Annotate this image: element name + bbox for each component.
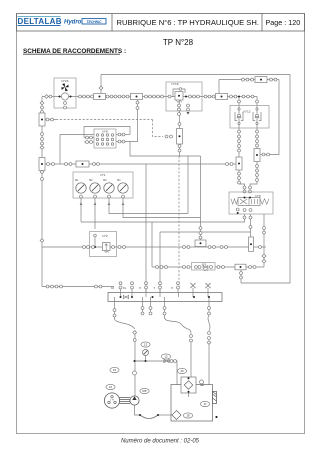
wire pilot dashed x152 elbow [153,120,164,137]
couplers N9 drain x264 [262,227,266,263]
throttle valve on x42 lower [39,158,45,171]
couplers x257 drop [256,135,259,147]
wire N12 left branch x239 [239,97,245,193]
wire N8 loop top [84,127,130,138]
wire pump outlet bottom [135,405,173,415]
item bubble 20 [177,368,186,373]
wire line y164 [45,163,237,165]
flow control FC3 [216,94,228,100]
wire line B y267 [152,266,264,268]
wire tank drop x209 [208,344,210,385]
couplers top line y79.6 [242,78,254,81]
manifold block N8 [94,129,116,148]
pilot valve x257 [254,149,260,162]
svg-text:MP: MP [142,389,146,393]
svg-text:N°1: N°1 [100,173,105,177]
wire riser x103 to outer loop [100,75,102,94]
wire gauge M2 drop [94,198,96,229]
wire N8 left stubs [84,138,94,143]
wire riser x219 [218,80,220,94]
couplers left vertical x42 [40,101,44,242]
shutoff valve 12 [164,359,177,362]
suction strainer diamond [172,411,181,420]
hydraulic pump [130,396,139,405]
header table [17,14,305,32]
svg-text:TP N°28: TP N°28 [163,38,194,47]
svg-text:13: 13 [144,343,148,347]
couplers hose ends [133,331,211,345]
inline throttle on line B [235,264,246,270]
couplers N5 drain [240,272,243,279]
port T [153,282,161,293]
svg-text:P: P [139,286,141,290]
port P1 [139,282,147,293]
directional valve N9 [229,192,273,214]
wire right drop x279 [261,80,280,155]
motor-pump coupling shaft [120,398,131,404]
wire tank drop x191 [190,342,192,377]
gauge line arrows [80,202,125,205]
Hydro Technic logo [64,19,106,26]
pilot valve x239 [236,157,242,170]
wire N9 B line y232 [160,214,251,247]
bar bottom stubs [113,302,210,318]
item bubble 12 [161,354,170,359]
wire FC2 drop to N8 [126,100,138,142]
couplers main line mid [106,95,129,98]
relief valve unit N18 [166,82,202,115]
wire hose bar x164 [164,315,191,334]
port X1 [123,282,134,293]
couplers x239 drop [238,135,241,152]
svg-text:N°12: N°12 [244,110,251,114]
svg-text:17: 17 [203,402,207,406]
couplers below N9 [236,208,252,228]
distribution bar manifold [108,293,222,302]
header title text [117,18,259,27]
pressure gauge 13 [143,350,149,356]
wire vertical x200 [200,156,202,240]
wire gauge M1 to line y222 [80,198,82,222]
wire return line 12 [135,361,178,385]
couplers top line right [270,78,277,81]
wire hose bar to pump [114,317,134,329]
couplers below pilot valve x257 [256,165,259,182]
item bubble 15 [110,367,119,372]
wire T return vertical x188 [187,156,189,214]
page number [266,18,301,27]
wire gauge13 stem [135,356,146,362]
inline valve above line A x200 [195,240,206,247]
oil tank [171,385,213,422]
gauge panel N1 [73,172,133,198]
svg-text:RUBRIQUE N°6 : TP HYDRAULIQUE: RUBRIQUE N°6 : TP HYDRAULIQUE SH. [117,18,259,27]
couplers below pilot valve x239 [238,172,241,184]
cooler unit N23 [54,78,76,109]
wire T port vertical x160 [159,232,161,293]
couplers x200 above valve [199,227,202,239]
DELTALAB logo [18,16,62,26]
coupler pump suction [133,371,137,375]
couplers FC2 drop [136,101,139,109]
couplers line A [83,246,262,249]
flow control FC1 [94,94,106,100]
electric motor 16 [104,393,119,408]
wire pump pressure vertical x135 [134,330,136,396]
couplers y156.5 right [65,163,100,166]
svg-text:Numéro de document : 02-05: Numéro de document : 02-05 [121,439,200,445]
wire bottom-left line to X2 port [42,286,114,288]
couplers line B [156,266,256,269]
svg-text:TECHNIC: TECHNIC [86,20,102,24]
item bubble 18 [183,413,192,418]
plugged port x208 [205,283,210,293]
return filter [213,392,217,404]
port P2 [171,282,179,293]
check valve block N12 [230,106,269,129]
coupler diamond riser x103 [99,86,103,90]
svg-text:SCHEMA DE RACCORDEMENTS :: SCHEMA DE RACCORDEMENTS : [23,48,126,55]
wire main supply line y96.5 [42,96,257,98]
svg-text:X2: X2 [111,286,115,290]
throttle valve on x42 upper [39,113,45,126]
svg-text:15: 15 [113,368,117,372]
item bubble MP [140,388,149,393]
couplers above N9 [243,186,251,193]
svg-text:N°8: N°8 [102,130,107,134]
wire line y156 from N8 [130,142,201,157]
couplers after N18 [189,95,215,98]
wire pilot dashed y120.5 [45,119,153,121]
svg-text:N°23: N°23 [62,79,69,83]
wire top line y79.6 [219,79,279,81]
svg-text:N°2: N°2 [102,234,107,238]
throttle unit N5 [192,263,216,271]
wire vertical x152 [151,222,153,267]
pilot throttle valve x179 [177,129,183,145]
wire N12 right branch x257 [250,97,257,193]
port X2 [111,282,122,293]
section heading [23,48,126,55]
branch couplers y120.5 [46,118,53,121]
wire P port vertical x146 [145,164,147,293]
item bubble 17 [200,401,209,406]
item bubble 13 [141,342,150,347]
svg-text:Page : 120: Page : 120 [266,18,301,27]
footer document number [121,439,200,445]
breather cap [200,380,204,386]
wire suction hose arc [139,414,159,419]
wire line A y247 [42,246,266,248]
plugged port x193 [190,283,195,293]
wire gauge M4 line y217.5 [123,198,201,218]
wire pilot dashed x179 [178,156,180,286]
couplers right of pilot valve x257 [262,153,269,156]
wire drain from N5 throttle [240,270,242,284]
svg-text:18: 18 [186,414,190,418]
svg-text:Hydro: Hydro [64,20,82,26]
wire N18 drain x179 [179,101,181,156]
svg-text:12: 12 [164,355,168,359]
branch couplers y156.5 [47,163,55,166]
wire hose squiggle x209 [208,315,210,331]
svg-text:20: 20 [180,369,184,373]
couplers bottom-left line [46,285,102,288]
inline valve y156.5 [76,161,89,167]
wire gauge M3 line y213.5 [109,198,188,214]
wire left vertical line x42 [41,97,43,287]
TP number title [163,38,194,47]
couplers around N12 [238,100,259,133]
tank drain plug [215,416,217,418]
flow control FC4 [255,77,267,83]
couplers N18 drain x179 [178,123,181,152]
couplers pilot dashed elbow [165,135,172,138]
svg-text:N°18: N°18 [172,82,179,86]
junction gauge line [134,360,147,362]
svg-text:X1: X1 [123,286,127,290]
couplers main line right [230,95,254,98]
wire outer pressure loop [101,75,290,284]
flow control FC2 [131,94,143,100]
wire N8 loop x60 [60,135,94,165]
svg-text:DELTALAB: DELTALAB [18,17,62,26]
check valve block 20 [181,377,196,397]
N8 side couplers [86,133,125,143]
needle valve in bar [123,295,128,298]
pressure reducer N2 [90,232,117,257]
wire N9 A line y222 [81,214,245,222]
item bubble 16 [106,384,115,389]
couplers main line left [45,95,94,99]
svg-text:P: P [171,286,173,290]
couplers pilot branch y163.5 [226,163,233,166]
wire N9 drain x264 [263,214,265,267]
wire N8 right stubs [116,135,130,142]
couplers before N18 [145,95,171,98]
inline valve above line A x253 [249,237,254,252]
svg-text:16: 16 [109,385,113,389]
